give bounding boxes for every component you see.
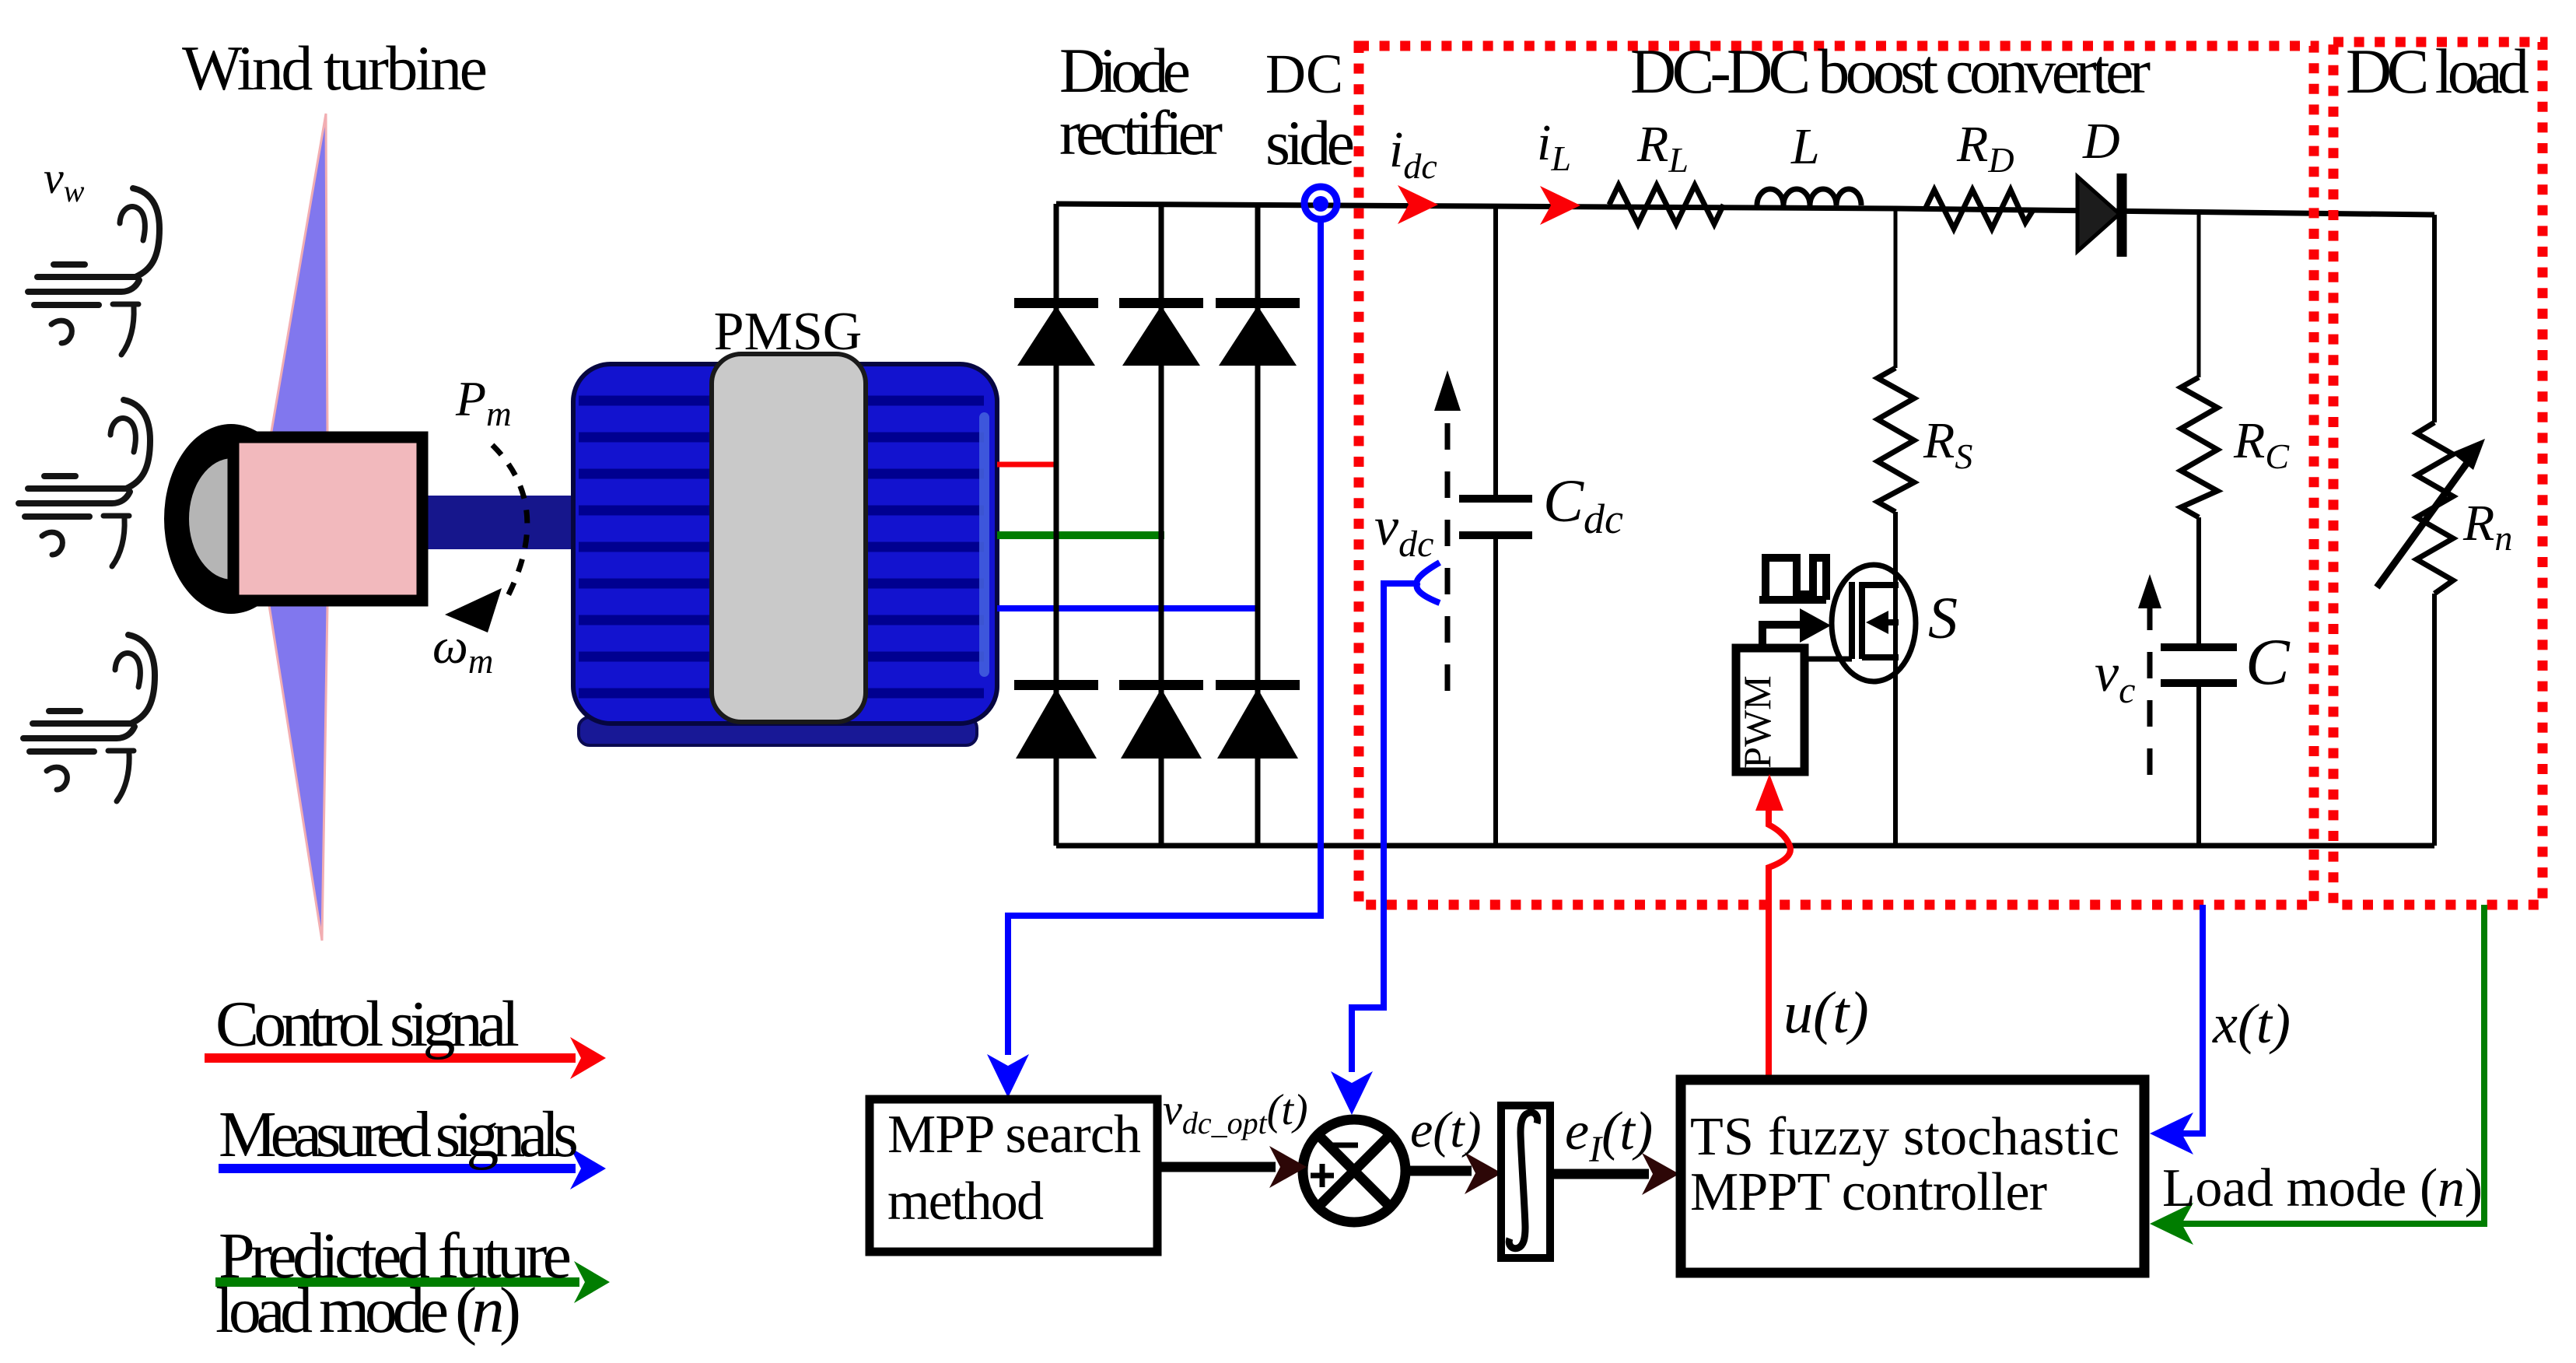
svg-text:u(t): u(t) xyxy=(1783,980,1869,1046)
svg-text:C: C xyxy=(2245,625,2291,699)
svg-text:eI(t): eI(t) xyxy=(1565,1102,1653,1170)
svg-text:rectifier: rectifier xyxy=(1059,97,1223,168)
svg-text:e(t): e(t) xyxy=(1410,1102,1482,1158)
svg-text:S: S xyxy=(1928,586,1958,651)
svg-text:TS fuzzy stochastic: TS fuzzy stochastic xyxy=(1690,1107,2119,1167)
svg-text:L: L xyxy=(1790,118,1820,175)
svg-text:side: side xyxy=(1265,107,1355,178)
svg-text:x(t): x(t) xyxy=(2212,993,2291,1055)
svg-text:PMSG: PMSG xyxy=(714,302,863,362)
svg-text:DC-DC boost converter: DC-DC boost converter xyxy=(1630,36,2151,107)
svg-text:MPPT controller: MPPT controller xyxy=(1690,1162,2047,1222)
svg-text:Load mode (n): Load mode (n) xyxy=(2162,1158,2483,1218)
svg-text:D: D xyxy=(2082,113,2120,170)
svg-text:Wind turbine: Wind turbine xyxy=(182,33,488,103)
svg-text:MPP search: MPP search xyxy=(887,1105,1141,1165)
svg-text:Measured signals: Measured signals xyxy=(219,1098,579,1171)
svg-text:Control signal: Control signal xyxy=(215,988,520,1060)
svg-text:Diode: Diode xyxy=(1059,35,1191,106)
svg-text:method: method xyxy=(887,1172,1044,1232)
svg-text:DC: DC xyxy=(1265,43,1343,105)
svg-text:load mode (n): load mode (n) xyxy=(215,1274,521,1347)
svg-text:DC load: DC load xyxy=(2346,36,2529,107)
svg-text:PWM: PWM xyxy=(1735,675,1779,768)
